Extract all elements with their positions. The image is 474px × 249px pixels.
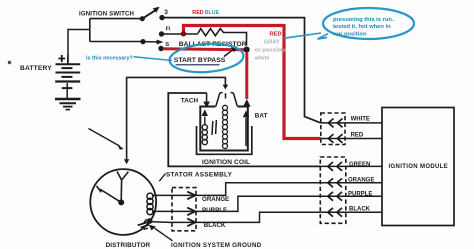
svg-text:S: S: [165, 42, 169, 48]
stator wire purple: [152, 196, 320, 211]
ground battery: [55, 99, 81, 110]
wire GREEN row through connector: [320, 165, 382, 167]
wire ORANGE row through connector: [320, 182, 382, 184]
module connector upper dashed box: [321, 113, 345, 145]
chevrons ORANGE row: [328, 178, 342, 187]
start bypass red wire: [163, 49, 244, 50]
svg-text:ORANGE: ORANGE: [202, 196, 229, 203]
annotation arrow to junction: [224, 49, 234, 56]
distributor housing circle: [90, 169, 156, 235]
svg-text:white: white: [254, 56, 271, 62]
svg-text:tested it, hot when in: tested it, hot when in: [333, 24, 391, 30]
annotation ellipse around START BYPASS: [169, 41, 245, 74]
svg-text:WHITE: WHITE: [351, 116, 370, 122]
red junction blob at resistor input: [181, 31, 186, 36]
stator connector arrow black: [187, 219, 195, 227]
ignition system ground symbol: [137, 218, 152, 231]
ground dot on distributor: [147, 218, 153, 224]
speech bubble leader to red wire: [284, 33, 321, 38]
terminal FI dot: [159, 31, 164, 36]
annotation arrow diagonal to distributor: [89, 129, 120, 147]
ignition switch SW1 bracket: [90, 19, 141, 42]
svg-text:GRAY: GRAY: [264, 40, 280, 46]
resistor R1 zigzag: [198, 29, 247, 46]
svg-text:DISTRIBUTOR: DISTRIBUTOR: [106, 242, 151, 249]
coil BAT arrow: [243, 99, 251, 107]
red run wire to RED pin: [184, 26, 321, 139]
speech bubble tail: [318, 34, 329, 39]
wire RED row through connector: [321, 138, 382, 140]
svg-text:IGNITION COIL: IGNITION COIL: [202, 159, 250, 166]
stray mark left edge: [8, 61, 11, 64]
svg-text:BLACK: BLACK: [349, 207, 371, 213]
stator connector arrow orange: [187, 192, 195, 200]
coil primary winding: [202, 117, 207, 145]
speech bubble ellipse: [323, 8, 414, 39]
svg-text:3: 3: [164, 9, 168, 16]
svg-text:GREEN: GREEN: [349, 162, 370, 168]
svg-text:RED: RED: [351, 132, 364, 138]
rotor arm up with Y fork: [117, 172, 128, 203]
switch arm arrowhead: [153, 7, 160, 13]
stator label leader: [159, 174, 165, 182]
stator pickup coil: [147, 193, 153, 215]
module connector lower dashed box: [320, 157, 346, 223]
switch pivot dot top: [140, 16, 145, 21]
stator connector dashed box: [172, 188, 196, 231]
switch bottom arrowhead: [157, 40, 164, 45]
coil secondary lead + arrow: [245, 118, 247, 147]
ignition coil T1 outer base: [197, 126, 252, 154]
ignition module box U1: [382, 108, 454, 226]
svg-text:RED: RED: [192, 10, 203, 16]
coil core: [212, 120, 216, 135]
chevrons PURPLE row: [328, 192, 342, 201]
HT arrow into distributor: [124, 159, 129, 164]
svg-text:BAT: BAT: [255, 112, 268, 119]
chevrons RED row: [328, 134, 342, 143]
HT lead coil tower to distributor: [127, 77, 226, 159]
node junction resistor output: [244, 47, 250, 53]
HT arrow into coil tower: [223, 85, 229, 90]
svg-text:presuming this is run.: presuming this is run.: [333, 17, 394, 23]
terminal 3 dot: [159, 15, 164, 20]
svg-text:RED: RED: [270, 32, 282, 38]
svg-text:run position: run position: [333, 31, 367, 37]
svg-text:ORANGE: ORANGE: [348, 177, 374, 183]
svg-text:TACH: TACH: [181, 98, 199, 105]
chevrons GREEN row: [328, 162, 342, 171]
wire BLACK row through connector: [320, 211, 382, 213]
tach wire loop to GREEN pin: [168, 93, 320, 166]
stator wire orange: [152, 183, 320, 196]
svg-text:START BYPASS: START BYPASS: [174, 57, 226, 64]
start bypass underline: [176, 64, 220, 66]
svg-text:IGNITION MODULE: IGNITION MODULE: [389, 164, 449, 170]
svg-text:IGNITION SYSTEM GROUND: IGNITION SYSTEM GROUND: [171, 242, 262, 249]
svg-text:STATOR ASSEMBLY: STATOR ASSEMBLY: [166, 171, 233, 178]
svg-text:or possibly: or possibly: [255, 48, 287, 54]
svg-text:BLACK: BLACK: [204, 222, 226, 229]
svg-text:IGNITION SWITCH: IGNITION SWITCH: [79, 10, 134, 17]
svg-text:is this necessary?: is this necessary?: [86, 56, 133, 62]
chevrons BLACK row: [328, 208, 342, 217]
switch pivot dot bottom: [140, 39, 145, 44]
switch arm: [142, 10, 155, 19]
coil secondary winding: [223, 105, 228, 148]
wire battery to switch bracket: [68, 30, 90, 65]
terminal S dot: [158, 46, 163, 51]
svg-text:BATTERY: BATTERY: [20, 65, 52, 72]
ignition coil box: [200, 107, 248, 151]
stator wire black: [152, 212, 321, 222]
battery BT1: [55, 55, 80, 99]
annotation leader to ellipse: [134, 57, 173, 61]
chevrons WHITE row: [328, 119, 342, 128]
stator connector arrow purple: [187, 208, 195, 216]
svg-text:PURPLE: PURPLE: [202, 207, 227, 214]
resistor wire from FI terminal: [164, 33, 198, 35]
coil primary arrow up: [202, 109, 208, 116]
red wire junction down to coil BAT: [245, 52, 248, 99]
wire WHITE row through connector: [321, 122, 382, 124]
switch bottom contact line: [143, 41, 157, 43]
battery plus sign: [58, 55, 65, 62]
wire PURPLE row through connector: [320, 195, 382, 197]
tach terminal arrow into coil: [206, 93, 208, 103]
wire RED BLUE run to WHITE pin: [164, 18, 321, 123]
svg-text:BLUE: BLUE: [205, 10, 220, 16]
svg-text:PURPLE: PURPLE: [348, 191, 372, 197]
ground label leader arrow: [155, 228, 173, 241]
svg-text:FI: FI: [166, 27, 171, 33]
coil tower: [216, 93, 238, 107]
rotor arm diagonal with tick: [97, 186, 122, 203]
rotor center dot: [118, 199, 124, 205]
